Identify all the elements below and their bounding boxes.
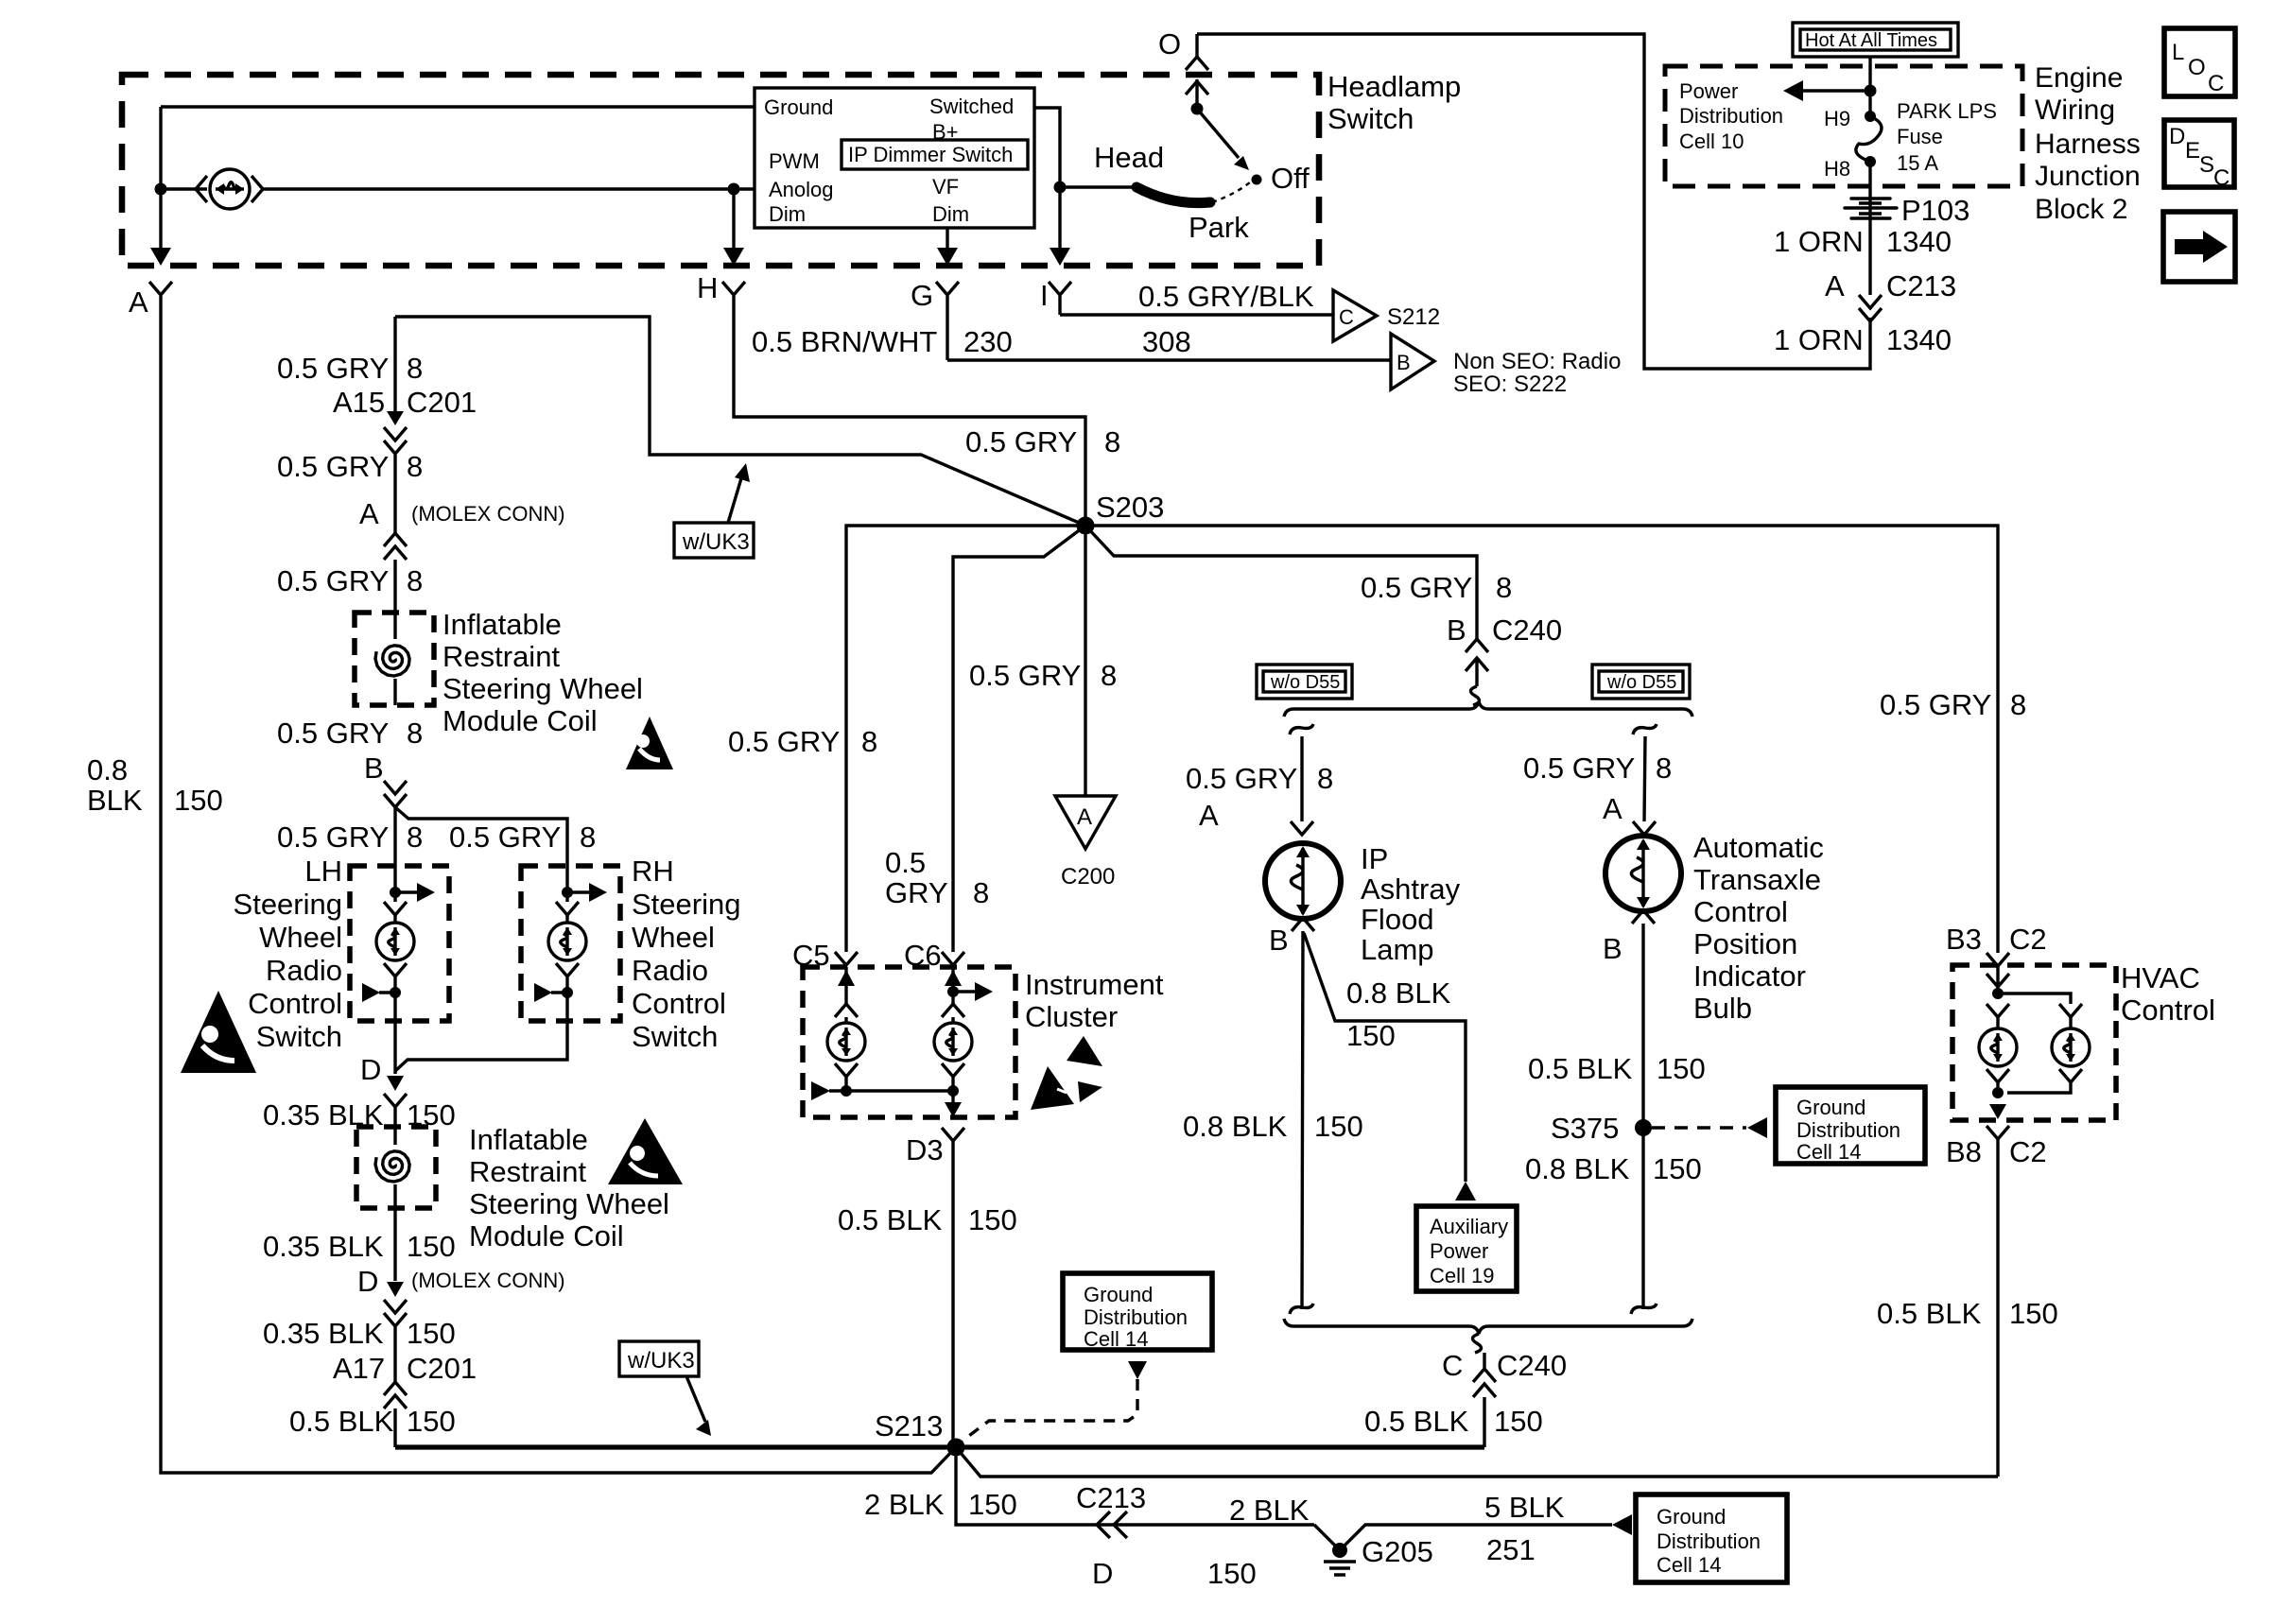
- box w/UK3 lower: [619, 1341, 699, 1376]
- wire A15 branch vertical: [393, 317, 396, 402]
- svg-text:0.5 BLK: 0.5 BLK: [1364, 1405, 1469, 1438]
- svg-text:150: 150: [407, 1405, 456, 1438]
- hook top of ashtray branch: [1290, 724, 1313, 734]
- node bus C6: [947, 1085, 959, 1097]
- svg-text:0.5 GRY: 0.5 GRY: [277, 564, 389, 597]
- connector B chevron ashtray: [1292, 918, 1314, 931]
- svg-text:Transaxle: Transaxle: [1693, 863, 1821, 896]
- svg-text:Steering: Steering: [632, 888, 740, 921]
- lamp LH switch illumination: [376, 923, 414, 960]
- svg-text:8: 8: [1317, 762, 1333, 795]
- arrow w/UK3 upper: [728, 478, 741, 523]
- svg-text:8: 8: [1656, 752, 1672, 785]
- connector B chevron transaxle: [1632, 910, 1655, 924]
- svg-text:Inflatable: Inflatable: [442, 608, 562, 641]
- box Ground Distribution Cell 14 (bottom): [1636, 1494, 1787, 1582]
- switch actuator arrow: [1197, 109, 1239, 158]
- connector C240 C chevrons: [1473, 1353, 1496, 1447]
- svg-text:B: B: [1397, 351, 1411, 374]
- node S375: [1635, 1119, 1652, 1136]
- svg-text:0.8: 0.8: [87, 753, 128, 786]
- cluster C6 chevron lower: [942, 1063, 964, 1106]
- svg-text:Harness: Harness: [2035, 129, 2141, 160]
- RH wire entry: [565, 866, 568, 902]
- svg-text:251: 251: [1486, 1533, 1536, 1566]
- wire S203 to C240 B: [1085, 526, 1477, 639]
- arrow exit A at dashed edge: [159, 248, 162, 253]
- svg-text:Auxiliary: Auxiliary: [1430, 1215, 1508, 1238]
- connector molex D arrow chevrons: [387, 1282, 404, 1297]
- wire headlamp common: [1060, 185, 1135, 188]
- svg-text:S212: S212: [1387, 304, 1440, 330]
- svg-text:Lamp: Lamp: [1361, 933, 1434, 966]
- module: power distribution dashed box: [1665, 66, 2022, 186]
- svg-text:8: 8: [1104, 425, 1120, 458]
- box LOC: [2164, 28, 2235, 96]
- svg-text:0.5 GRY: 0.5 GRY: [277, 450, 389, 483]
- svg-text:VF: VF: [932, 175, 959, 199]
- svg-text:150: 150: [1207, 1557, 1257, 1590]
- node bus C5: [841, 1085, 852, 1097]
- svg-text:w/o D55: w/o D55: [1270, 672, 1340, 693]
- svg-text:Bulb: Bulb: [1693, 992, 1752, 1025]
- wire fuse to P103: [1868, 162, 1871, 236]
- wire S203 to C6: [953, 526, 1085, 952]
- svg-text:Wheel: Wheel: [632, 921, 715, 954]
- svg-text:C: C: [1442, 1349, 1463, 1382]
- wire C213 to G205: [1314, 1525, 1612, 1550]
- svg-text:150: 150: [1653, 1152, 1702, 1185]
- svg-text:C213: C213: [1076, 1481, 1146, 1514]
- connector A chevron transaxle: [1633, 821, 1656, 835]
- svg-text:2 BLK: 2 BLK: [864, 1488, 945, 1521]
- svg-text:Control: Control: [2121, 993, 2215, 1027]
- svg-text:D: D: [360, 1053, 381, 1086]
- wire internal vertical: [159, 107, 162, 248]
- svg-text:GRY: GRY: [885, 876, 948, 909]
- svg-text:Non SEO: Radio: Non SEO: Radio: [1453, 349, 1621, 374]
- wire transaxle ground drop: [1641, 924, 1644, 1309]
- svg-text:Switch: Switch: [632, 1020, 718, 1053]
- fuse PARK LPS 15A: [1865, 111, 1876, 122]
- svg-text:Control: Control: [1693, 895, 1788, 928]
- brace merge bottom for optional branches: [1284, 1319, 1692, 1334]
- svg-text:0.5 BLK: 0.5 BLK: [1877, 1297, 1982, 1330]
- box arrow forward: [2163, 212, 2235, 282]
- svg-text:BLK: BLK: [87, 784, 143, 817]
- node headlamp feed: [1054, 181, 1067, 194]
- svg-text:Power: Power: [1679, 79, 1738, 103]
- module: inflatable restraint coil 1 dashed box: [355, 613, 434, 705]
- squiggle bottom ashtray branch: [1290, 1304, 1313, 1314]
- svg-text:A: A: [129, 285, 148, 319]
- svg-text:C2: C2: [2009, 1135, 2047, 1168]
- svg-text:2 BLK: 2 BLK: [1229, 1494, 1310, 1527]
- svg-text:150: 150: [174, 784, 223, 817]
- svg-text:230: 230: [963, 325, 1013, 358]
- svg-text:A: A: [1825, 269, 1845, 302]
- wire LH exit down: [393, 1021, 396, 1074]
- svg-text:Hot At All Times: Hot At All Times: [1805, 30, 1937, 51]
- connector A chevron ashtray: [1291, 821, 1313, 835]
- svg-text:Switched: Switched: [929, 95, 1014, 118]
- svg-text:Radio: Radio: [632, 954, 708, 987]
- svg-text:L: L: [2172, 40, 2184, 65]
- switch dashed travel to Off: [1212, 182, 1250, 202]
- wire ground pin to lamp branch vertical: [161, 105, 755, 108]
- svg-text:0.5 GRY: 0.5 GRY: [277, 352, 389, 385]
- svg-text:Module Coil: Module Coil: [469, 1219, 624, 1253]
- contact arrow left: [811, 1081, 830, 1100]
- svg-text:w/UK3: w/UK3: [627, 1348, 695, 1373]
- arrow exit I at dashed edge: [1050, 248, 1070, 266]
- svg-text:0.35 BLK: 0.35 BLK: [263, 1317, 384, 1350]
- svg-text:B: B: [1447, 613, 1466, 647]
- svg-text:150: 150: [1494, 1405, 1543, 1438]
- node HVAC split: [1992, 988, 2004, 999]
- svg-text:150: 150: [968, 1488, 1017, 1521]
- svg-text:D: D: [1092, 1557, 1113, 1590]
- svg-text:8: 8: [407, 450, 423, 483]
- svg-text:S375: S375: [1551, 1112, 1619, 1145]
- node switch pivot: [1191, 103, 1204, 115]
- box Auxiliary Power Cell 19: [1416, 1206, 1517, 1291]
- lamp IP ashtray flood: [1265, 843, 1341, 919]
- symbol ESD sensitive icon: [1031, 1036, 1102, 1110]
- connector D arrow chevron: [387, 1076, 404, 1091]
- connector G below module: [936, 282, 959, 360]
- svg-text:0.35 BLK: 0.35 BLK: [263, 1230, 384, 1263]
- arrow w/UK3 lower: [686, 1376, 705, 1422]
- svg-text:0.5: 0.5: [885, 846, 926, 879]
- svg-text:8: 8: [407, 821, 423, 854]
- node Off position: [1252, 175, 1262, 185]
- wire lamp line right to Anolog pin: [263, 187, 755, 190]
- node HVAC rejoin: [1992, 1087, 2004, 1098]
- wire S203 down to C200: [1084, 526, 1086, 796]
- wire A15 branch top run: [395, 317, 1085, 526]
- wire HVAC rejoin: [1998, 1089, 2071, 1097]
- svg-text:Position: Position: [1693, 927, 1797, 960]
- svg-text:0.5 GRY: 0.5 GRY: [1880, 688, 1991, 721]
- svg-text:8: 8: [973, 876, 989, 909]
- svg-text:Cell 10: Cell 10: [1679, 130, 1744, 153]
- svg-text:Automatic: Automatic: [1693, 831, 1824, 864]
- svg-text:0.5 GRY: 0.5 GRY: [277, 717, 389, 750]
- svg-text:0.8 BLK: 0.8 BLK: [1183, 1110, 1288, 1143]
- wire hot feed: [1868, 57, 1871, 116]
- svg-text:B: B: [364, 752, 384, 785]
- module: inflatable restraint coil 2 dashed box: [356, 1127, 436, 1208]
- node internal junction: [155, 183, 167, 196]
- lamp cluster C5: [827, 1023, 865, 1061]
- wire S213 lower-right bus to HVAC return: [956, 1447, 1998, 1477]
- HVAC exit arrow: [1989, 1104, 2006, 1119]
- svg-text:C: C: [1339, 305, 1354, 329]
- HVAC chevron below right lamp: [2059, 1069, 2082, 1089]
- svg-text:A: A: [1603, 792, 1622, 825]
- LH momentary contact: [390, 987, 401, 998]
- svg-text:A: A: [1199, 799, 1219, 832]
- wire pivot to O: [1195, 79, 1198, 109]
- cluster C6 chevron: [942, 1004, 964, 1023]
- wire G to radio connector: [947, 358, 1391, 361]
- connector chevron left of illumination lamp: [196, 176, 207, 202]
- connector B8 chevron: [1987, 1126, 2009, 1139]
- svg-text:G: G: [911, 279, 933, 312]
- svg-text:0.5 GRY/BLK: 0.5 GRY/BLK: [1138, 280, 1314, 313]
- svg-text:B3: B3: [1946, 923, 1982, 956]
- svg-text:P103: P103: [1901, 194, 1969, 227]
- svg-text:Distribution: Distribution: [1084, 1305, 1188, 1329]
- svg-text:S213: S213: [875, 1409, 943, 1443]
- svg-text:w/UK3: w/UK3: [682, 529, 750, 555]
- bulb automatic transaxle indicator: [1605, 836, 1681, 911]
- svg-text:8: 8: [407, 564, 423, 597]
- svg-text:8: 8: [407, 352, 423, 385]
- connector A triangle C200: [1055, 796, 1116, 849]
- svg-text:Fuse: Fuse: [1897, 125, 1943, 148]
- svg-text:0.5 GRY: 0.5 GRY: [965, 425, 1077, 458]
- svg-text:15 A: 15 A: [1897, 151, 1938, 175]
- svg-text:Distribution: Distribution: [1657, 1529, 1761, 1553]
- module: instrument cluster dashed box: [803, 967, 1015, 1117]
- lamp RH switch illumination: [548, 923, 586, 960]
- svg-text:E: E: [2185, 138, 2200, 164]
- node S213: [947, 1439, 965, 1457]
- switch headlamp rotor thick contact: [1136, 187, 1210, 203]
- svg-text:O: O: [2188, 55, 2206, 80]
- connector B3 chevron: [1987, 953, 2009, 966]
- wire I drop: [1058, 187, 1061, 248]
- node C6 tap: [947, 986, 959, 997]
- svg-text:H8: H8: [1824, 157, 1850, 181]
- node LH tap: [390, 887, 401, 898]
- wire B8 return to S213: [1996, 1139, 1999, 1477]
- svg-text:Switch: Switch: [1327, 102, 1414, 135]
- dashed link middle ground box to S213: [963, 1379, 1137, 1441]
- svg-text:150: 150: [1314, 1110, 1363, 1143]
- RH chevron below lamp: [556, 963, 579, 1021]
- box Ground Distribution Cell 14 (middle): [1063, 1273, 1212, 1350]
- svg-text:0.5 GRY: 0.5 GRY: [277, 821, 389, 854]
- connector C201 A17 chevrons up: [384, 1347, 407, 1447]
- arrow into auxiliary power box: [1455, 1182, 1476, 1201]
- svg-text:Dim: Dim: [932, 202, 969, 226]
- svg-text:D: D: [357, 1265, 378, 1298]
- node S203: [1077, 517, 1095, 535]
- connector A below module: [149, 282, 172, 306]
- connector arrow into ground dist box (S375): [1747, 1117, 1767, 1138]
- wire transaxle branch upper: [1644, 736, 1645, 821]
- svg-text:Inflatable: Inflatable: [469, 1123, 588, 1156]
- RH momentary contact: [562, 987, 573, 998]
- box DESC: [2164, 120, 2234, 187]
- svg-text:C: C: [2213, 165, 2230, 191]
- cluster internal bus: [829, 1089, 953, 1092]
- svg-text:1340: 1340: [1886, 323, 1952, 356]
- svg-text:Steering Wheel: Steering Wheel: [469, 1187, 669, 1220]
- wire I to S212 connector: [1060, 313, 1333, 316]
- svg-text:A: A: [359, 497, 379, 530]
- svg-text:B: B: [1269, 924, 1289, 957]
- svg-text:Cell 14: Cell 14: [1796, 1140, 1861, 1164]
- svg-text:B8: B8: [1946, 1135, 1982, 1168]
- svg-text:Instrument: Instrument: [1025, 968, 1164, 1001]
- svg-text:Ground: Ground: [1084, 1283, 1153, 1306]
- svg-text:150: 150: [1346, 1019, 1396, 1052]
- svg-text:D: D: [2169, 124, 2185, 149]
- svg-text:Cell 19: Cell 19: [1430, 1264, 1494, 1287]
- connector D3 chevron: [942, 1128, 964, 1141]
- wire S213 drop to C213: [956, 1447, 1314, 1525]
- svg-text:C200: C200: [1061, 864, 1115, 890]
- RH tap arrow: [567, 890, 590, 893]
- svg-text:(MOLEX CONN): (MOLEX CONN): [411, 502, 565, 526]
- module: RH steering wheel radio control switch dashed box: [521, 866, 620, 1021]
- svg-text:150: 150: [2009, 1297, 2058, 1330]
- C6 tap arrow: [953, 990, 976, 993]
- svg-text:0.5 GRY: 0.5 GRY: [728, 725, 840, 758]
- svg-text:308: 308: [1142, 325, 1191, 358]
- svg-text:Wiring: Wiring: [2035, 95, 2115, 126]
- cluster C5 chevron lower: [835, 1063, 858, 1091]
- svg-text:0.5 GRY: 0.5 GRY: [969, 659, 1081, 692]
- svg-text:8: 8: [861, 725, 877, 758]
- svg-text:150: 150: [407, 1230, 456, 1263]
- svg-text:G205: G205: [1362, 1535, 1433, 1568]
- symbol SIR warning triangle 3: [608, 1118, 683, 1184]
- svg-text:150: 150: [968, 1203, 1017, 1236]
- cluster C6 entry arrow: [951, 967, 954, 1004]
- hook top of transaxle branch: [1633, 724, 1657, 734]
- svg-text:C201: C201: [407, 1352, 477, 1385]
- svg-text:5 BLK: 5 BLK: [1484, 1491, 1565, 1524]
- wire through coil 1: [393, 613, 396, 705]
- wire left boundary 0.8 BLK 150: [161, 306, 956, 1473]
- node feed tap: [1865, 85, 1877, 97]
- break squiggle below C240 B: [1470, 686, 1479, 705]
- svg-text:Off: Off: [1271, 162, 1310, 195]
- svg-text:C240: C240: [1492, 613, 1562, 647]
- arrow below middle ground box: [1128, 1361, 1147, 1379]
- svg-text:A17: A17: [333, 1352, 385, 1385]
- svg-text:Junction: Junction: [2035, 161, 2141, 192]
- connector B chevrons: [384, 781, 407, 866]
- svg-text:I: I: [1040, 279, 1049, 312]
- box Hot At All Times: [1793, 23, 1958, 57]
- svg-text:D3: D3: [906, 1133, 944, 1166]
- svg-text:Switch: Switch: [256, 1020, 342, 1053]
- box Ground Distribution Cell 14 (upper right): [1776, 1087, 1925, 1164]
- LH chevron below lamp: [384, 963, 407, 1021]
- svg-text:0.5 BLK: 0.5 BLK: [289, 1405, 394, 1438]
- svg-text:B: B: [1603, 932, 1622, 965]
- svg-text:Ground: Ground: [1657, 1505, 1726, 1529]
- HVAC chevron below left lamp: [1987, 1069, 2009, 1089]
- svg-text:Head: Head: [1094, 141, 1164, 174]
- svg-text:150: 150: [407, 1317, 456, 1350]
- coil spiral 1: [375, 646, 409, 676]
- connector O chevrons at top edge: [1186, 81, 1208, 95]
- coil spiral 2: [375, 1151, 409, 1182]
- wire P103 to C213: [1868, 236, 1871, 295]
- wire A17 to S213 bus: [395, 1444, 1484, 1449]
- svg-text:Ground: Ground: [1796, 1096, 1865, 1119]
- brace split top for optional branches: [1284, 701, 1692, 717]
- svg-text:C240: C240: [1497, 1349, 1567, 1382]
- svg-text:H9: H9: [1824, 107, 1850, 130]
- svg-text:C: C: [2208, 71, 2224, 96]
- wire RH exit to D: [395, 1021, 567, 1071]
- svg-text:IP Dimmer Switch: IP Dimmer Switch: [848, 143, 1013, 166]
- lamp cluster C6: [934, 1023, 972, 1061]
- svg-text:A15: A15: [333, 386, 385, 419]
- svg-text:0.8 BLK: 0.8 BLK: [1346, 976, 1451, 1010]
- svg-text:0.5 BLK: 0.5 BLK: [838, 1203, 943, 1236]
- ground G205: [1332, 1543, 1347, 1558]
- svg-text:Distribution: Distribution: [1679, 104, 1783, 128]
- svg-text:Headlamp: Headlamp: [1327, 70, 1461, 103]
- connector C213 chevrons left: [1097, 1512, 1127, 1538]
- cluster D3 exit arrow: [945, 1102, 962, 1117]
- svg-text:C213: C213: [1886, 269, 1956, 302]
- wire Switched B+ pin to headlamp switch feed: [1034, 108, 1060, 187]
- svg-text:1 ORN: 1 ORN: [1774, 323, 1864, 356]
- LH wire entry: [393, 866, 396, 902]
- dashed link S375 to ground dist box: [1652, 1126, 1746, 1129]
- svg-text:C2: C2: [2009, 923, 2047, 956]
- module: top dashed enclosure (dimmer/headlamp switch module): [122, 75, 1319, 266]
- svg-text:Steering: Steering: [234, 888, 342, 921]
- connector C6 chevron: [942, 952, 964, 965]
- lamp HVAC right: [2052, 1028, 2090, 1066]
- svg-text:Ashtray: Ashtray: [1361, 872, 1461, 906]
- grommet P103: [1845, 199, 1897, 218]
- wire lamp line left: [161, 187, 207, 190]
- svg-text:Module Coil: Module Coil: [442, 704, 598, 737]
- svg-text:8: 8: [1101, 659, 1117, 692]
- svg-text:1 ORN: 1 ORN: [1774, 225, 1864, 258]
- cluster C5 chevron: [835, 1004, 858, 1023]
- svg-text:Wheel: Wheel: [259, 921, 342, 954]
- svg-text:Steering Wheel: Steering Wheel: [442, 672, 643, 705]
- lamp dimmer illumination symbol: [210, 169, 250, 209]
- svg-text:Indicator: Indicator: [1693, 959, 1806, 993]
- connector C triangle S212: [1333, 290, 1377, 341]
- wire O loop to engine harness: [1197, 34, 1870, 369]
- svg-text:Cell 14: Cell 14: [1084, 1327, 1148, 1351]
- wire HVAC split bus: [1998, 993, 2071, 1004]
- svg-text:IP: IP: [1361, 842, 1388, 875]
- svg-text:Distribution: Distribution: [1796, 1118, 1900, 1142]
- HVAC chevron left branch: [1987, 1004, 2009, 1028]
- wire H down to S203 feed: [734, 306, 1085, 526]
- wire S203 to C5: [846, 526, 1085, 952]
- svg-text:(MOLEX CONN): (MOLEX CONN): [411, 1269, 565, 1292]
- svg-text:0.8 BLK: 0.8 BLK: [1525, 1152, 1630, 1185]
- svg-text:1340: 1340: [1886, 225, 1952, 258]
- svg-text:Cluster: Cluster: [1025, 1000, 1118, 1033]
- box w/UK3 upper: [674, 523, 754, 558]
- svg-text:Power: Power: [1430, 1239, 1488, 1263]
- connector B triangle radio: [1391, 334, 1434, 389]
- wire branch to RH switch: [395, 807, 567, 866]
- connector H below module: [722, 282, 745, 306]
- op box: IP dimmer switch module: [755, 88, 1034, 228]
- svg-text:8: 8: [2010, 688, 2026, 721]
- HVAC entry chevron: [1987, 966, 2009, 993]
